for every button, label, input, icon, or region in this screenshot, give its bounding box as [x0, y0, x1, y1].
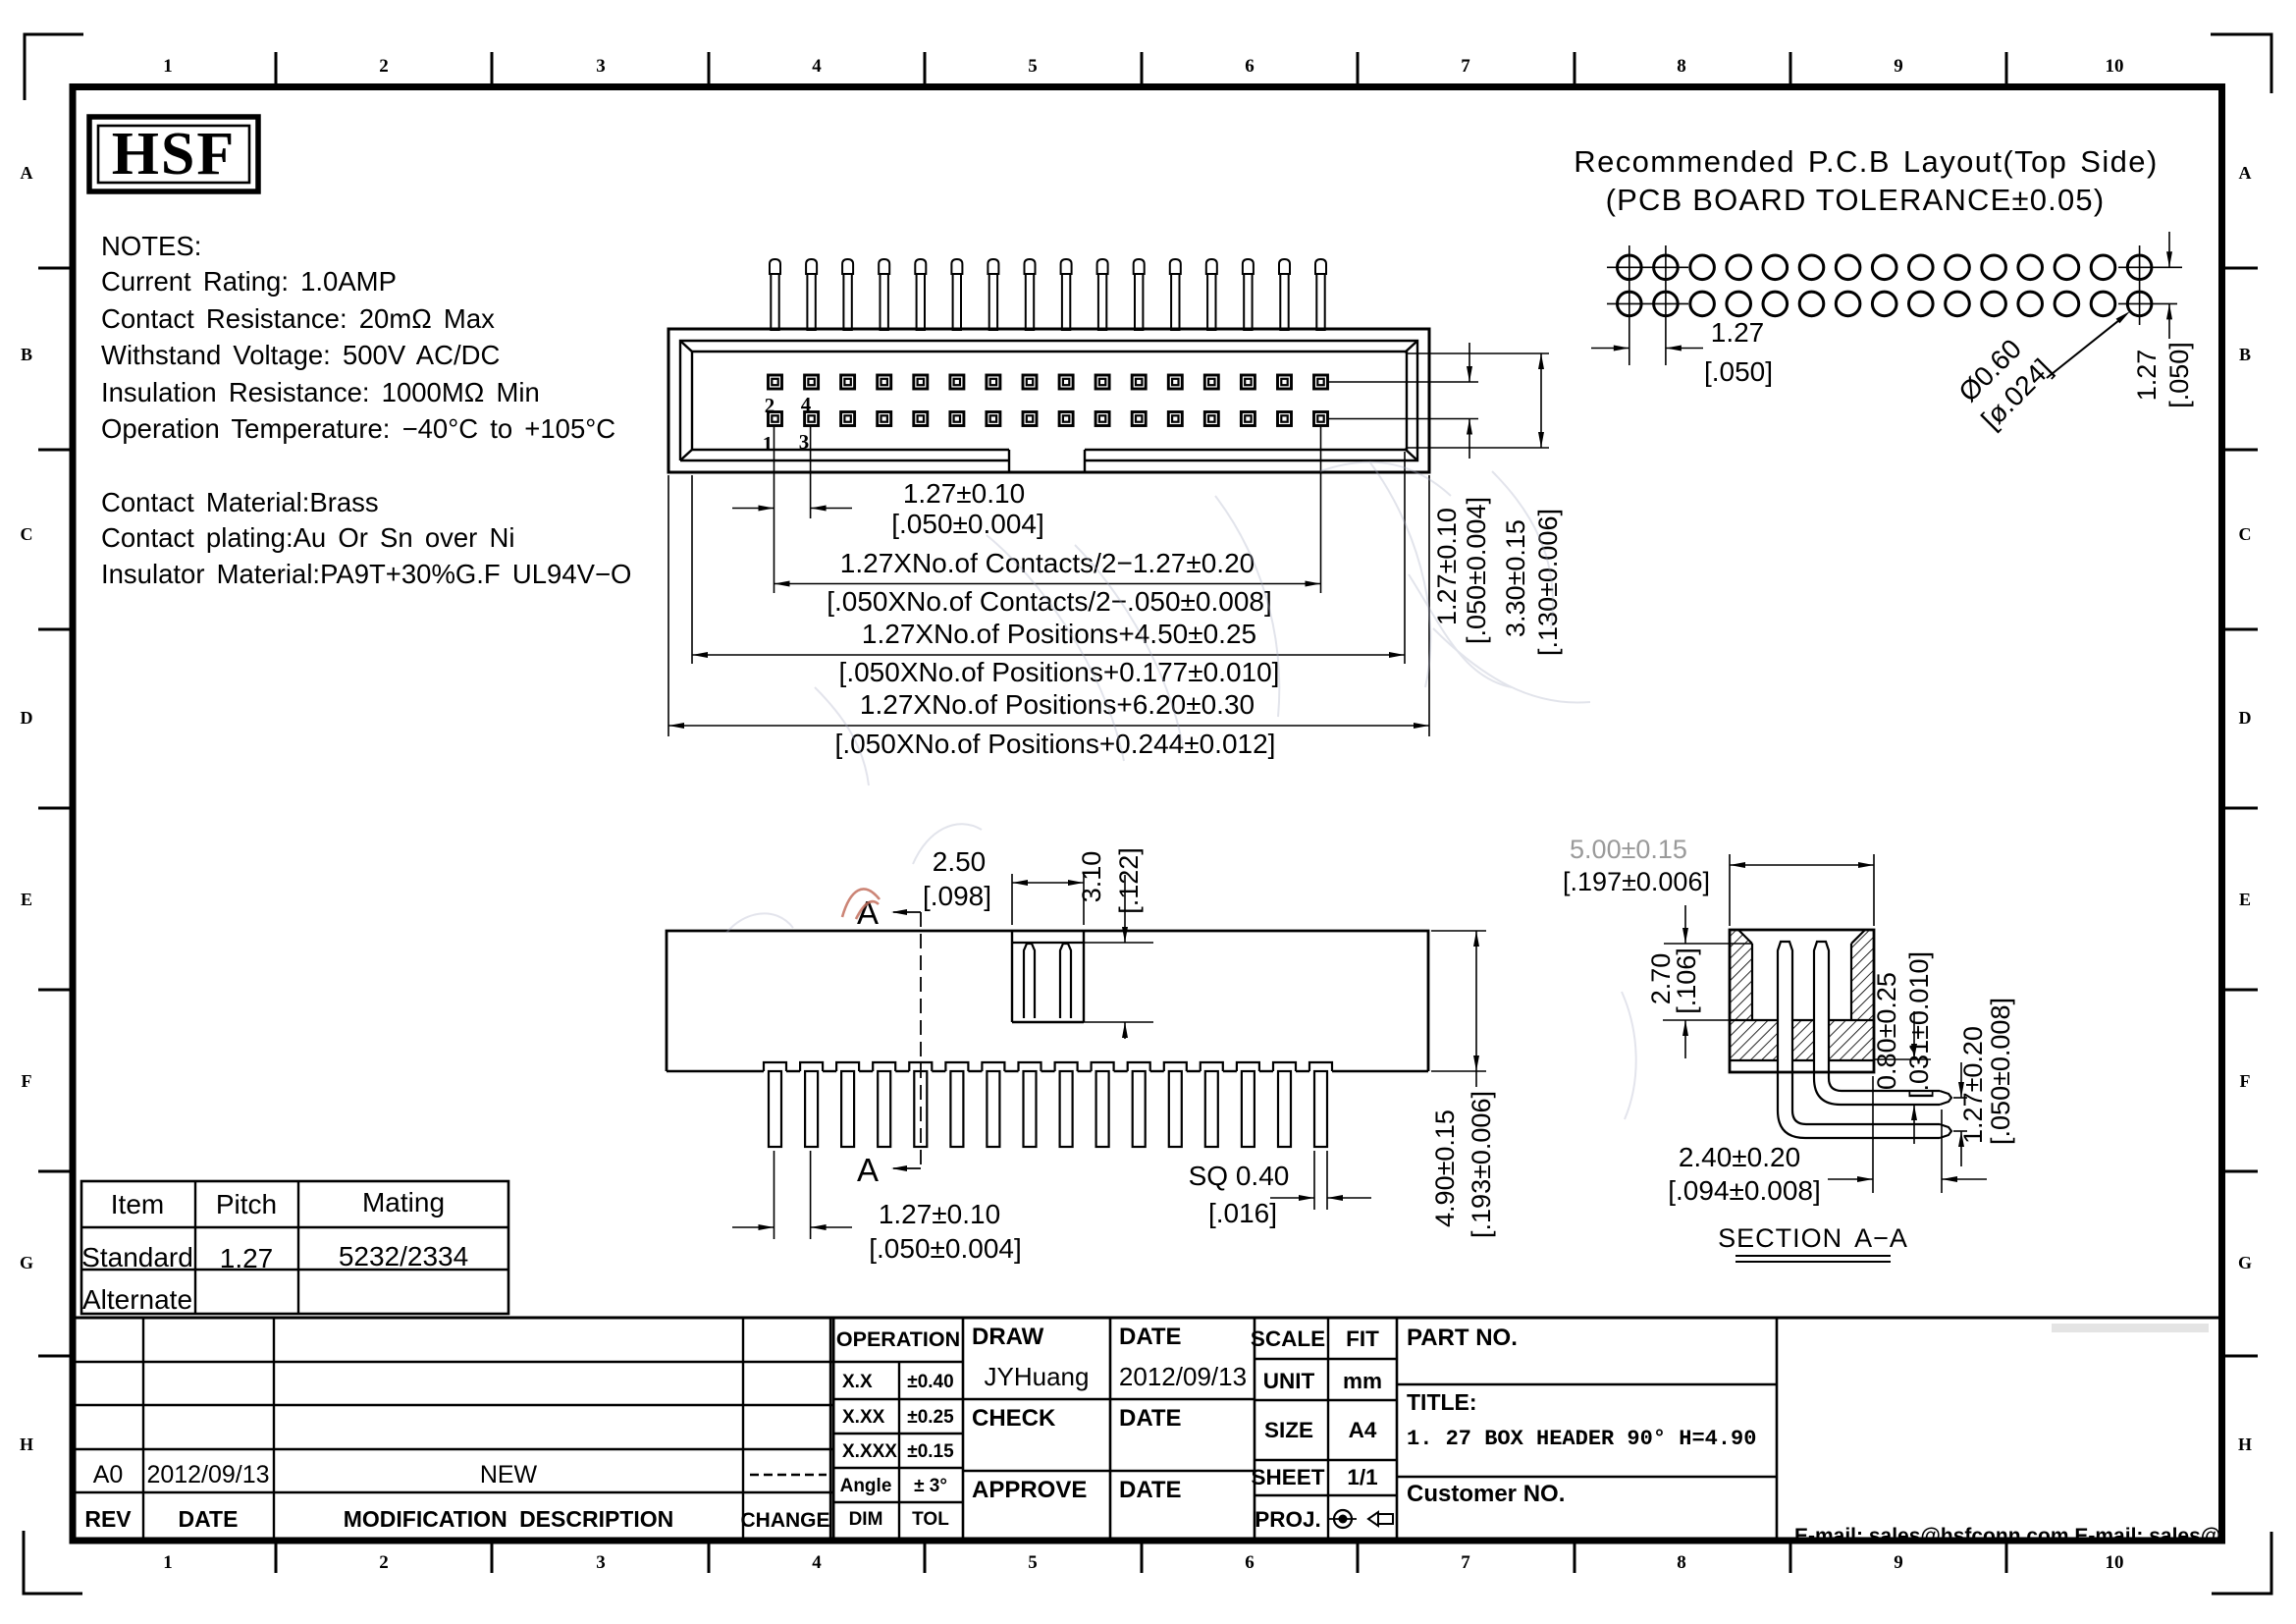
- svg-text:4: 4: [812, 56, 822, 77]
- svg-text:Pitch: Pitch: [216, 1189, 277, 1219]
- section line A-A: [857, 894, 921, 1188]
- svg-text:9: 9: [1894, 56, 1903, 77]
- svg-text:[.050XNo.of Positions+0.244±0.: [.050XNo.of Positions+0.244±0.012]: [835, 729, 1276, 759]
- title block: draw/check/approve: [963, 1318, 1255, 1538]
- svg-text:A0: A0: [93, 1461, 124, 1489]
- svg-text:G: G: [2238, 1253, 2252, 1272]
- svg-text:PART NO.: PART NO.: [1407, 1325, 1518, 1351]
- red pencil mark near section arrow: [842, 890, 880, 919]
- svg-text:1. 27 BOX HEADER 90° H=4.90: 1. 27 BOX HEADER 90° H=4.90: [1407, 1427, 1756, 1451]
- revision table: [74, 1318, 2220, 1538]
- front view: right leader lines: [1328, 353, 1550, 448]
- svg-text:PROJ.: PROJ.: [1255, 1507, 1321, 1532]
- svg-text:E: E: [21, 890, 32, 909]
- svg-text:X.XXX: X.XXX: [842, 1441, 897, 1462]
- front view: two rows of 16 contacts: [769, 375, 1328, 426]
- svg-text:[.016]: [.016]: [1208, 1198, 1277, 1228]
- svg-text:A4: A4: [1349, 1418, 1377, 1442]
- svg-text:DATE: DATE: [179, 1506, 239, 1532]
- svg-text:TOL: TOL: [912, 1509, 949, 1530]
- svg-text:Insulation Resistance: 1000MΩ: Insulation Resistance: 1000MΩ Min: [101, 377, 540, 407]
- svg-text:Angle: Angle: [840, 1476, 892, 1496]
- title block: scale/unit/size/sheet/proj: [1251, 1318, 1397, 1538]
- svg-text:1.27±0.10: 1.27±0.10: [1432, 508, 1462, 625]
- svg-text:1: 1: [763, 432, 774, 456]
- svg-text:2012/09/13: 2012/09/13: [146, 1461, 269, 1489]
- PCB layout crosshairs: [1607, 245, 2182, 365]
- svg-text:A: A: [2239, 163, 2252, 183]
- svg-text:Insulator Material:PA9T+30%G.F: Insulator Material:PA9T+30%G.F UL94V−O: [101, 559, 631, 589]
- svg-text:X.X: X.X: [842, 1372, 873, 1392]
- svg-text:7: 7: [1461, 56, 1470, 77]
- dimension 1.27±0.10 row spacing (right, rotated): [1432, 343, 1491, 644]
- svg-text:0.80±0.25: 0.80±0.25: [1872, 972, 1901, 1090]
- svg-text:8: 8: [1677, 56, 1686, 77]
- SECTION A-A label: [1718, 1223, 1908, 1262]
- svg-text:3: 3: [799, 430, 810, 454]
- svg-text:G: G: [20, 1253, 33, 1272]
- svg-text:Item: Item: [111, 1189, 164, 1219]
- svg-text:10: 10: [2106, 56, 2124, 77]
- PCB layout hole pattern: [1618, 255, 2152, 316]
- dimension 4.90 height (rotated): [1430, 931, 1496, 1238]
- svg-text:Standard: Standard: [81, 1242, 193, 1272]
- section A-A dimension 1.27 tail spacing (rotated): [1953, 998, 2015, 1166]
- svg-text:[.050]: [.050]: [2164, 342, 2194, 408]
- hole diameter callout Ø0.60: [1950, 311, 2130, 435]
- section A-A dimension 2.40 tail length: [1668, 1076, 1987, 1206]
- svg-text:5: 5: [1028, 56, 1038, 77]
- svg-text:DIM: DIM: [849, 1509, 883, 1530]
- title block: operation/tolerance table: [833, 1318, 963, 1538]
- dimension positions+6.20 overall length: [668, 689, 1429, 759]
- svg-text:± 3°: ± 3°: [914, 1476, 947, 1496]
- svg-text:DATE: DATE: [1119, 1405, 1182, 1432]
- svg-text:NOTES:: NOTES:: [101, 231, 201, 261]
- notes text block: [101, 231, 631, 589]
- svg-text:SCALE: SCALE: [1251, 1326, 1325, 1351]
- svg-text:APPROVE: APPROVE: [972, 1477, 1087, 1503]
- svg-text:2.40±0.20: 2.40±0.20: [1679, 1142, 1800, 1172]
- svg-text:H: H: [2238, 1435, 2252, 1454]
- svg-text:E: E: [2239, 890, 2251, 909]
- svg-text:OPERATION: OPERATION: [836, 1327, 960, 1351]
- svg-text:1.27: 1.27: [1711, 317, 1765, 348]
- svg-text:B: B: [21, 345, 32, 364]
- svg-text:F: F: [22, 1071, 32, 1091]
- svg-text:Alternate: Alternate: [82, 1284, 192, 1315]
- svg-text:Contact Material:Brass: Contact Material:Brass: [101, 487, 379, 517]
- dimension 1.27 hole pitch (horizontal): [1591, 317, 1773, 387]
- svg-text:3: 3: [596, 1552, 606, 1573]
- svg-text:6: 6: [1245, 56, 1255, 77]
- svg-text:TITLE:: TITLE:: [1407, 1389, 1477, 1415]
- projection symbol: [1329, 1510, 1393, 1528]
- svg-text:Operation Temperature: −40°C t: Operation Temperature: −40°C to +105°C: [101, 413, 615, 444]
- side view: body: [667, 931, 1428, 1071]
- section A-A: hatched housing: [1730, 930, 1874, 1072]
- dimension 2.50 key width: [923, 846, 1084, 925]
- svg-text:DATE: DATE: [1119, 1324, 1182, 1350]
- svg-text:[.098]: [.098]: [923, 881, 991, 911]
- svg-text:X.XX: X.XX: [842, 1407, 885, 1428]
- svg-text:9: 9: [1894, 1552, 1903, 1573]
- svg-text:SQ 0.40: SQ 0.40: [1189, 1161, 1290, 1191]
- svg-text:[.094±0.008]: [.094±0.008]: [1668, 1175, 1821, 1206]
- svg-text:B: B: [2239, 345, 2251, 364]
- svg-text:1.27±0.10: 1.27±0.10: [903, 478, 1025, 509]
- bottom right cell with clipped e-mail footer: [1794, 1324, 2296, 1547]
- svg-text:[.122]: [.122]: [1114, 847, 1144, 914]
- dimension 1.27 row spacing (right, rotated): [2132, 232, 2194, 408]
- svg-text:SHEET: SHEET: [1251, 1465, 1324, 1489]
- PCB layout title: [1574, 144, 2158, 217]
- svg-text:6: 6: [1245, 1552, 1255, 1573]
- svg-text:C: C: [21, 524, 33, 544]
- svg-text:8: 8: [1677, 1552, 1686, 1573]
- svg-text:Customer NO.: Customer NO.: [1407, 1481, 1565, 1507]
- grid column ticks and numbers: [163, 52, 2123, 1573]
- svg-text:Contact plating:Au Or Sn over: Contact plating:Au Or Sn over Ni: [101, 522, 514, 553]
- svg-text:FIT: FIT: [1346, 1326, 1379, 1351]
- svg-text:4: 4: [801, 393, 812, 416]
- section A-A dimension 0.80 (rotated): [1872, 951, 1934, 1144]
- pin number labels 1 2 3 4: [763, 393, 812, 456]
- svg-text:[.050±0.008]: [.050±0.008]: [1986, 998, 2015, 1145]
- svg-text:[.106]: [.106]: [1672, 947, 1701, 1014]
- svg-text:2: 2: [765, 394, 775, 417]
- svg-text:SIZE: SIZE: [1264, 1418, 1313, 1442]
- svg-text:[.197±0.006]: [.197±0.006]: [1563, 867, 1710, 896]
- section A-A: two right-angle pins: [1778, 942, 1951, 1138]
- svg-text:1.27XNo.of Positions+6.20±0.30: 1.27XNo.of Positions+6.20±0.30: [860, 689, 1255, 720]
- svg-text:HSF: HSF: [112, 121, 237, 188]
- svg-text:mm: mm: [1343, 1369, 1382, 1393]
- section A-A dimension 5.00 width (faded): [1563, 835, 1874, 926]
- side view: 16 pin tails: [769, 1071, 1327, 1147]
- svg-text:±0.15: ±0.15: [907, 1441, 954, 1462]
- svg-text:[.031±0.010]: [.031±0.010]: [1904, 951, 1934, 1099]
- dimension 1.27±0.10 pin pitch (below): [732, 1151, 1022, 1264]
- dimension positions+4.50: [692, 619, 1405, 687]
- svg-text:±0.40: ±0.40: [907, 1372, 953, 1392]
- svg-text:1.27XNo.of Positions+4.50±0.25: 1.27XNo.of Positions+4.50±0.25: [862, 619, 1256, 649]
- svg-text:CHANGE: CHANGE: [740, 1509, 829, 1532]
- svg-text:1.27XNo.of Contacts/2−1.27±0.2: 1.27XNo.of Contacts/2−1.27±0.20: [840, 548, 1255, 578]
- svg-text:Withstand Voltage: 500V AC/DC: Withstand Voltage: 500V AC/DC: [101, 340, 500, 370]
- svg-text:CHECK: CHECK: [972, 1405, 1056, 1432]
- svg-text:H: H: [20, 1435, 33, 1454]
- dimension 1.27±0.10 contact pitch: [732, 478, 1044, 539]
- svg-text:[.130±0.006]: [.130±0.006]: [1533, 509, 1563, 656]
- svg-text:UNIT: UNIT: [1263, 1369, 1315, 1393]
- svg-text:C: C: [2239, 524, 2252, 544]
- svg-text:4: 4: [812, 1552, 822, 1573]
- svg-text:±0.25: ±0.25: [907, 1407, 954, 1428]
- dimension 3.10 key depth (rotated): [1077, 847, 1144, 1039]
- svg-text:1: 1: [163, 56, 173, 77]
- svg-text:[.193±0.006]: [.193±0.006]: [1467, 1091, 1496, 1238]
- svg-text:[.050±0.004]: [.050±0.004]: [891, 509, 1044, 539]
- svg-text:Mating: Mating: [362, 1187, 445, 1218]
- svg-text:3.30±0.15: 3.30±0.15: [1501, 519, 1530, 637]
- svg-text:1.27: 1.27: [220, 1243, 274, 1273]
- item-pitch-mating table: [81, 1181, 508, 1315]
- svg-text:Contact Resistance: 20mΩ Max: Contact Resistance: 20mΩ Max: [101, 303, 495, 334]
- section A-A dimension 2.70 (rotated): [1646, 905, 1752, 1058]
- HSF logo: [89, 117, 258, 191]
- svg-text:D: D: [2239, 708, 2252, 728]
- svg-text:1.27: 1.27: [2132, 350, 2162, 402]
- dimension SQ 0.40 pin size: [1189, 1151, 1371, 1228]
- svg-text:[.050±0.004]: [.050±0.004]: [1462, 497, 1491, 644]
- svg-text:A: A: [21, 163, 33, 183]
- svg-text:5: 5: [1028, 1552, 1038, 1573]
- svg-text:Current Rating: 1.0AMP: Current Rating: 1.0AMP: [101, 266, 397, 297]
- grid row ticks and letters: [20, 163, 2258, 1454]
- svg-text:DRAW: DRAW: [972, 1324, 1044, 1350]
- svg-text:REV: REV: [84, 1506, 132, 1532]
- svg-text:1.27±0.10: 1.27±0.10: [879, 1199, 1000, 1229]
- front view: 16 header pins (top): [770, 259, 1326, 330]
- svg-text:F: F: [2240, 1071, 2251, 1091]
- svg-text:1: 1: [163, 1552, 173, 1573]
- scanner ghost marks: [726, 461, 1636, 1119]
- svg-text:MODIFICATION DESCRIPTION: MODIFICATION DESCRIPTION: [344, 1506, 674, 1532]
- svg-text:2012/09/13: 2012/09/13: [1119, 1362, 1247, 1391]
- svg-text:[.050XNo.of Positions+0.177±0.: [.050XNo.of Positions+0.177±0.010]: [839, 657, 1280, 687]
- svg-text:(PCB BOARD TOLERANCE±0.05): (PCB BOARD TOLERANCE±0.05): [1606, 183, 2106, 217]
- svg-text:1/1: 1/1: [1347, 1465, 1377, 1489]
- title block: part no / title / customer no: [1397, 1318, 1777, 1538]
- svg-text:[.050]: [.050]: [1704, 356, 1773, 387]
- svg-text:SECTION A−A: SECTION A−A: [1718, 1223, 1908, 1253]
- svg-text:JYHuang: JYHuang: [985, 1362, 1090, 1391]
- svg-text:5.00±0.15: 5.00±0.15: [1570, 835, 1687, 864]
- svg-text:3.10: 3.10: [1077, 851, 1106, 903]
- svg-text:10: 10: [2106, 1552, 2124, 1573]
- svg-text:3: 3: [596, 56, 606, 77]
- svg-text:A: A: [857, 1152, 879, 1188]
- side view: key slot with mating pin tips: [1012, 931, 1153, 1022]
- svg-text:DATE: DATE: [1119, 1477, 1182, 1503]
- svg-text:5232/2334: 5232/2334: [339, 1241, 468, 1272]
- svg-text:D: D: [21, 708, 33, 728]
- svg-text:Recommended P.C.B Layout(Top S: Recommended P.C.B Layout(Top Side): [1574, 144, 2158, 179]
- svg-text:2: 2: [379, 1552, 389, 1573]
- front view: connector body outline: [668, 329, 1429, 472]
- svg-text:NEW: NEW: [480, 1461, 538, 1489]
- dimension contacts row length: [774, 548, 1321, 617]
- svg-text:1.27±0.20: 1.27±0.20: [1958, 1026, 1988, 1144]
- front view: extension lines below: [668, 426, 1429, 736]
- dimension 3.30±0.15 cavity depth (right, rotated): [1501, 353, 1563, 656]
- svg-text:2.50: 2.50: [933, 846, 987, 877]
- svg-text:2: 2: [379, 56, 389, 77]
- svg-text:7: 7: [1461, 1552, 1470, 1573]
- svg-text:4.90±0.15: 4.90±0.15: [1430, 1110, 1460, 1227]
- svg-text:[.050±0.004]: [.050±0.004]: [869, 1233, 1022, 1264]
